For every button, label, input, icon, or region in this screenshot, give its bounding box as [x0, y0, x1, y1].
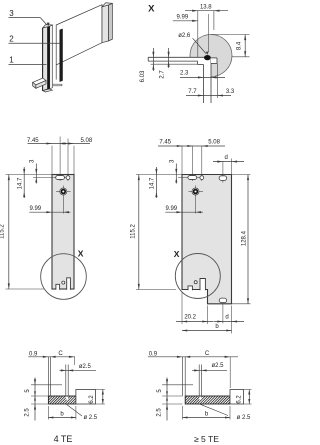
svg-text:ø2.5: ø2.5 [79, 364, 92, 370]
dimension 128.4 (>=5TE right) [247, 175, 249, 304]
3D view: right end bar side face [109, 3, 113, 41]
leader line item 1 [9, 63, 47, 65]
dimension d (>=5TE bottom) [231, 306, 233, 334]
svg-text:2.5: 2.5 [157, 408, 163, 417]
label dia 2.5 bottom with leader (4TE section) [66, 404, 82, 416]
detail X: panel web vertical section (white) [204, 58, 212, 103]
3D view: front bar heavy right edge [48, 25, 50, 90]
dimension 6.2 (4TE section right) [96, 389, 105, 391]
dimension 7.45 (4TE top) [51, 146, 53, 175]
svg-text:2.5: 2.5 [25, 408, 31, 417]
svg-text:ø 2.5: ø 2.5 [237, 415, 251, 421]
svg-text:2: 2 [9, 34, 14, 43]
dimension 5 / 2.5 (>=5TE section left) [162, 384, 193, 386]
svg-text:3.3: 3.3 [226, 89, 235, 95]
3D view: right end bar front face [102, 5, 109, 43]
svg-text:X: X [148, 4, 155, 15]
4TE panel oblong slot top-left [33, 177, 68, 179]
detail X: white-out lower-left of circle [187, 61, 204, 81]
dimension 13.8 (detail X top) [185, 10, 228, 12]
3D view: front bar left edge emphasis [42, 28, 44, 91]
>=5TE drill notch in bar [199, 397, 201, 400]
extension line top edge (>=5TE) [136, 174, 182, 176]
4TE panel bottom notches and hole (inside detail circle) [56, 284, 60, 290]
dimension 14.7 (>=5TE) [155, 167, 157, 198]
svg-text:13.8: 13.8 [200, 5, 212, 11]
4TE section side rail block [76, 390, 96, 405]
svg-text:X: X [174, 249, 180, 259]
detail X: gray collar-screw circle [190, 35, 232, 77]
>=5TE section screw hole lines [198, 365, 200, 397]
label dia 2.5 top (4TE section) [60, 369, 97, 371]
svg-text:0.9: 0.9 [149, 351, 158, 357]
svg-text:ø2.6: ø2.6 [178, 33, 191, 39]
>=5TE section hatched bar [185, 396, 230, 404]
detail circle X (>=5TE) [175, 254, 220, 299]
detail circle X (4TE) [41, 254, 87, 300]
svg-text:8.4: 8.4 [237, 41, 243, 50]
svg-text:X: X [78, 248, 84, 258]
svg-text:6.2: 6.2 [89, 395, 95, 404]
label dia 2.5 top (>=5TE section) [192, 369, 227, 371]
svg-text:C: C [205, 351, 210, 357]
3D view: right end bar top face [102, 3, 112, 7]
leader line item 3 [9, 17, 41, 19]
svg-text:≥ 5 TE: ≥ 5 TE [194, 434, 219, 444]
svg-text:9.99: 9.99 [177, 14, 189, 20]
dimension 8.4 (detail X right) [212, 34, 250, 36]
>=5TE oblong slot top-left [178, 177, 202, 179]
>=5TE panel front view body (stepped bottom) [182, 175, 232, 304]
svg-text:1: 1 [9, 56, 14, 65]
4TE panel front view body [52, 175, 74, 290]
3D view: front bar bottom end face [43, 89, 53, 92]
svg-text:7.45: 7.45 [27, 138, 39, 144]
4TE panel small hole top-right [67, 139, 69, 182]
>=5TE bottom right oblong hole [219, 298, 226, 303]
svg-text:2.7: 2.7 [159, 70, 165, 79]
4TE section screw hole lines (dia 2.5) [65, 365, 67, 397]
>=5TE panel bottom notches and hole [188, 286, 192, 290]
dimension 115.2 (>=5TE) [138, 175, 140, 290]
dimension 7.45 (>=5TE) [181, 146, 183, 175]
svg-text:3: 3 [9, 9, 14, 18]
svg-text:128.4: 128.4 [242, 230, 248, 246]
dimension 2.7 (detail X) [168, 48, 170, 68]
4TE section wall lines (0.9) [47, 357, 49, 396]
svg-text:2.3: 2.3 [180, 71, 189, 77]
dimension 6.2 (>=5TE section right) [244, 389, 252, 391]
>=5TE section side rail block [230, 390, 244, 405]
detail X: collar screw hole (black) [204, 55, 211, 60]
3D view: rear rail edge below sheet [55, 65, 57, 80]
dimension b (>=5TE section) [182, 406, 184, 420]
dimension 6.03 (detail X left) [151, 63, 198, 65]
leader line item 2 [9, 42, 61, 44]
dimension 5 / 2.5 (4TE section left) [31, 384, 62, 386]
svg-text:5.08: 5.08 [208, 139, 220, 145]
svg-text:20.2: 20.2 [184, 314, 196, 320]
>=5TE collar screw hole [189, 191, 193, 193]
svg-text:115.2: 115.2 [0, 224, 6, 239]
svg-text:0.9: 0.9 [29, 351, 38, 357]
extension line panel bottom (4TE) [6, 288, 45, 290]
>=5TE section wall lines [182, 357, 184, 396]
3D view: lower rail strip under gasket [53, 83, 63, 85]
extension line panel top edge (4TE) [6, 174, 53, 176]
svg-text:6.2: 6.2 [237, 395, 243, 404]
>=5TE small hole [201, 146, 203, 181]
svg-text:ø2.5: ø2.5 [211, 363, 224, 369]
svg-text:115.2: 115.2 [130, 224, 136, 239]
3D view: dark gasket strip (item 2) [60, 29, 63, 82]
>=5TE top right oblong hole [222, 161, 224, 183]
svg-text:7.45: 7.45 [159, 139, 171, 145]
svg-text:4 TE: 4 TE [54, 434, 73, 444]
dimension 5.08 (4TE top) [62, 142, 68, 144]
dimension d (>=5TE top) [231, 159, 233, 175]
svg-text:d: d [225, 155, 228, 161]
4TE panel collar screw hole [56, 191, 60, 193]
4TE drill notch in bar [66, 397, 68, 400]
detail X: panel flange horizontal section (white) [148, 57, 203, 61]
dimension 3 (4TE) [35, 164, 37, 184]
dimension b (4TE section) [47, 406, 49, 420]
svg-text:6.03: 6.03 [140, 70, 146, 82]
svg-text:d: d [225, 314, 228, 320]
3D view: front panel bar side face [50, 25, 53, 89]
hole centerline (detail X) [208, 14, 210, 52]
dimension 14.7 (4TE) [23, 167, 25, 198]
detail X: flange boss [198, 61, 204, 64]
svg-text:7.7: 7.7 [188, 89, 197, 95]
detail X: step notch right of web (white) [211, 58, 217, 64]
3D view: front panel bar top face [43, 25, 53, 28]
svg-text:14.7: 14.7 [17, 177, 23, 189]
svg-text:C: C [58, 351, 63, 357]
dimension 115.2 (4TE left) [8, 175, 10, 290]
svg-text:5.08: 5.08 [81, 138, 93, 144]
svg-text:9.99: 9.99 [29, 206, 41, 212]
dimension 20.2 (>=5TE bottom) [181, 292, 183, 325]
dimension 7.7 / 3.3 (detail X bottom) [216, 63, 218, 98]
3D view: bottom foot bracket of front panel [33, 78, 46, 85]
dimension b (>=5TE bottom) [182, 330, 232, 332]
3D view: front panel bar front face (item 1) [43, 27, 48, 91]
svg-text:14.7: 14.7 [150, 177, 156, 189]
label dia 2.5 bottom with leader (>=5TE section) [200, 404, 228, 415]
svg-text:ø 2.5: ø 2.5 [83, 415, 97, 421]
3D view: large rear sheet (panel body) [56, 5, 102, 65]
dimension 3 (>=5TE) [175, 164, 177, 184]
svg-text:9.99: 9.99 [165, 206, 177, 212]
